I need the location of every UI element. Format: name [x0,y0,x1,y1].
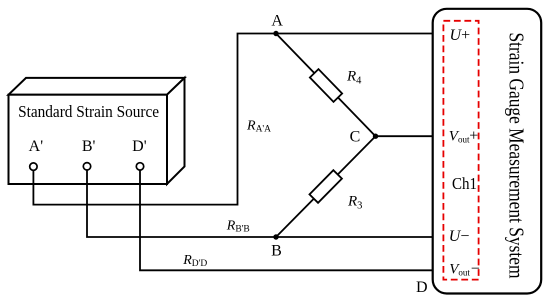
svg-text:B: B [271,243,282,260]
wire A to C diagonal [276,34,376,137]
svg-text:U+: U+ [450,27,471,44]
svg-text:−: − [471,260,480,277]
wire A' to node A to terminal U+ [33,34,434,205]
terminal circle B' [83,163,90,170]
standard strain source box front face [9,95,168,184]
red dashed connector area [443,21,478,280]
svg-text:U−: U− [449,228,470,245]
standard strain source box right face [167,78,185,184]
strain gauge measurement system box [433,9,542,294]
resistor R4 body [310,69,342,102]
svg-text:B': B' [82,138,96,155]
node B dot [273,234,278,239]
svg-text:Standard Strain Source: Standard Strain Source [18,102,159,121]
svg-text:Strain Gauge Measurement Syste: Strain Gauge Measurement System [505,33,529,279]
svg-text:A': A' [29,138,44,155]
node A dot [273,31,278,36]
terminal circle A' [30,163,37,170]
wire C to terminal Vout+ [376,135,434,137]
svg-text:D': D' [132,138,147,155]
svg-text:D: D [416,279,428,296]
svg-text:+: + [469,127,478,144]
svg-text:A: A [271,13,283,30]
terminal circle D' [136,163,143,170]
svg-text:Ch1: Ch1 [452,174,477,193]
svg-text:C: C [350,128,361,145]
wire D' to node D to terminal Vout- [140,170,434,270]
wire C to B diagonal [276,136,376,237]
standard strain source box top face [9,78,185,95]
wire B' to node B to terminal U- [87,170,434,237]
resistor R3 body [309,170,341,203]
node C dot [373,134,378,139]
